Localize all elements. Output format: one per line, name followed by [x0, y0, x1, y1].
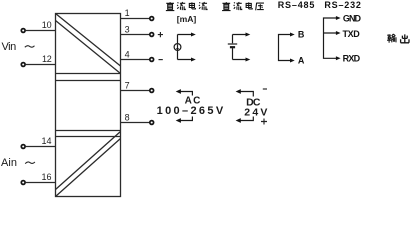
- svg-text:8: 8: [125, 112, 130, 122]
- svg-text:14: 14: [42, 136, 52, 146]
- svg-text:RS–485: RS–485: [278, 0, 315, 10]
- svg-text:10: 10: [42, 20, 52, 30]
- svg-text:100–265V: 100–265V: [157, 105, 224, 117]
- svg-text:RXD: RXD: [343, 54, 361, 64]
- svg-text:Vin: Vin: [2, 41, 17, 53]
- svg-text:12: 12: [42, 54, 52, 64]
- svg-text:TXD: TXD: [343, 29, 361, 39]
- svg-text:7: 7: [125, 80, 130, 90]
- svg-text:A: A: [298, 56, 305, 66]
- svg-text:B: B: [298, 30, 305, 40]
- svg-text:GND: GND: [343, 13, 362, 23]
- svg-text:Ain: Ain: [1, 157, 17, 169]
- svg-text:1: 1: [125, 8, 130, 18]
- svg-text:4: 4: [125, 49, 130, 59]
- svg-text:[mA]: [mA]: [177, 14, 197, 24]
- svg-text:3: 3: [125, 24, 130, 34]
- svg-text:24V: 24V: [244, 107, 267, 119]
- svg-text:RS–232: RS–232: [324, 0, 361, 10]
- svg-text:16: 16: [42, 172, 52, 182]
